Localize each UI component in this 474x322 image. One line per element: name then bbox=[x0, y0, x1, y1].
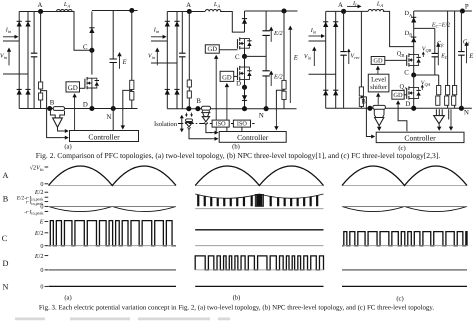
MOSFET Q2 (b) body diode bbox=[245, 67, 250, 80]
rail junction dot (b) bbox=[281, 8, 286, 13]
load divider (c) bbox=[454, 11, 456, 108]
output E arrow (c) bbox=[466, 44, 468, 63]
bridge diode top-left (c) bbox=[325, 11, 327, 108]
E divider resistor lower bbox=[445, 96, 449, 105]
node A bbox=[38, 9, 43, 14]
junction dot sense branch (b) bbox=[186, 106, 191, 111]
flying cap bottom wire bbox=[414, 74, 435, 76]
svg-text:(a): (a) bbox=[64, 144, 71, 151]
svg-text:N: N bbox=[259, 112, 264, 119]
ISO box 1 bbox=[212, 120, 229, 127]
voltage sense isolator triangle (b) bbox=[186, 122, 193, 126]
output capacitor C_d bbox=[460, 11, 462, 52]
wire inductor to node C bbox=[71, 12, 92, 51]
AC input wire upper bbox=[3, 40, 19, 42]
node N (a) bbox=[111, 106, 116, 111]
input divider tap wire bbox=[41, 91, 62, 138]
row A rectified sine (c) bbox=[342, 166, 467, 186]
svg-text:0: 0 bbox=[40, 284, 43, 291]
upper E/2 arrow bbox=[270, 29, 272, 42]
output divider wire (a) bbox=[131, 11, 133, 109]
wire QB source to node C (c) bbox=[413, 65, 415, 75]
AC input wire lower bbox=[3, 73, 28, 75]
sense resistor lower bbox=[39, 93, 43, 100]
rail junction dot bbox=[129, 8, 134, 13]
voltage sense open arrowhead (b) bbox=[187, 127, 190, 130]
wire C to Q2 drain bbox=[244, 56, 246, 67]
wire inductor to FC leg bbox=[383, 11, 414, 46]
bridge diode bottom-right (c) bbox=[333, 90, 338, 95]
amp output to controller bbox=[58, 127, 64, 131]
svg-text:(a): (a) bbox=[64, 295, 71, 302]
row A rectified sine (a) bbox=[49, 166, 177, 186]
input sense divider wire bbox=[40, 12, 42, 109]
svg-text:Controller: Controller bbox=[404, 133, 436, 142]
gate driver GD box Q_B bbox=[371, 57, 385, 65]
bottom rail (c) bbox=[326, 107, 472, 109]
divider tap path 2 (c) bbox=[448, 109, 450, 119]
E sense divider (c) bbox=[447, 11, 449, 108]
svg-text:N: N bbox=[107, 114, 112, 121]
svg-text:Controller: Controller bbox=[88, 132, 120, 141]
level shifter box bbox=[368, 74, 389, 92]
wire inductor to NPC leg bbox=[220, 12, 244, 33]
bridge diode top-right (c) bbox=[335, 11, 337, 108]
divider resistor upper (a) bbox=[130, 80, 134, 89]
svg-text:GD: GD bbox=[208, 46, 218, 53]
sense resistor lower (b) bbox=[187, 91, 191, 98]
voltage sense wire to controller (b) bbox=[189, 130, 212, 139]
svg-text:E: E bbox=[121, 59, 126, 66]
voltage arrow V_in (c) bbox=[313, 49, 315, 66]
svg-text:ISO: ISO bbox=[237, 121, 248, 128]
current sense amp triangle (c) bbox=[375, 118, 384, 126]
current sense open arrowhead (b) bbox=[204, 122, 207, 125]
load resistor lower bbox=[452, 96, 456, 105]
current arrow I_in (c) bbox=[309, 35, 323, 37]
row N waveform (a) bbox=[49, 285, 177, 287]
MOSFET switch (a) body diode bbox=[92, 78, 97, 88]
divider tap to controller bbox=[123, 90, 132, 111]
row A axis (b) bbox=[195, 185, 323, 187]
sense amp triangle (c) bbox=[434, 116, 445, 124]
wire C to MOSFET drain bbox=[91, 50, 93, 74]
ISO2 link wire bbox=[241, 127, 243, 131]
current sense funnel (b) bbox=[201, 112, 210, 114]
circuit (b) NPC PFC — top input rail bbox=[167, 11, 189, 13]
sense resistor lower (c) bbox=[359, 98, 363, 107]
GD drive arrow (a) bbox=[74, 96, 76, 131]
voltage arrow V_in bbox=[8, 50, 10, 65]
MOSFET Q_B (c) bbox=[408, 53, 410, 66]
svg-text:Fig. 2. Comparison of PFC topo: Fig. 2. Comparison of PFC topologies, (a… bbox=[36, 151, 441, 160]
current sense isolator triangle (b) bbox=[202, 117, 209, 122]
current sense amp triangle (a) bbox=[53, 118, 63, 127]
ISO box 2 bbox=[233, 120, 250, 127]
bridge diode bottom-left (b) bbox=[165, 89, 170, 94]
svg-text:0: 0 bbox=[40, 203, 43, 210]
svg-text:E/2: E/2 bbox=[34, 189, 44, 196]
divider resistor upper (b) bbox=[282, 80, 286, 89]
flying cap top wire bbox=[414, 27, 435, 29]
AC input wire upper (c) bbox=[309, 40, 326, 42]
svg-text:E/2: E/2 bbox=[273, 74, 283, 81]
svg-text:Level: Level bbox=[371, 76, 386, 83]
current sense stub right (b) bbox=[208, 111, 210, 113]
bridge diode top-right bbox=[27, 12, 29, 109]
gate wire Q_A bbox=[404, 94, 407, 96]
inductor L_A (b) bbox=[205, 10, 221, 12]
NPC upper diode bbox=[244, 11, 246, 32]
gate driver GD1 box (b) bbox=[205, 45, 219, 53]
inductor L_A (c) bbox=[368, 9, 384, 11]
E_C chain resistor upper bbox=[437, 86, 441, 95]
voltage sense isolator body (b) bbox=[186, 119, 193, 122]
svg-text:E/2: E/2 bbox=[34, 253, 44, 260]
svg-text:B: B bbox=[361, 98, 366, 105]
inductor current arrow I_L bbox=[347, 5, 359, 7]
svg-text:GD: GD bbox=[68, 84, 78, 92]
voltage sense converging arrows (b) bbox=[185, 113, 187, 116]
svg-text:D: D bbox=[83, 101, 88, 108]
svg-text:C: C bbox=[404, 69, 409, 76]
row C waveform (a) bbox=[49, 221, 177, 246]
wire C to cap midpoint bbox=[245, 55, 267, 57]
node P bbox=[460, 8, 465, 13]
svg-text:E/2: E/2 bbox=[273, 30, 283, 37]
row D waveform (a) bbox=[49, 269, 177, 271]
svg-text:A: A bbox=[186, 2, 191, 9]
wire QA source to node D (c) bbox=[413, 98, 415, 108]
bridge diode bottom-right (b) bbox=[174, 89, 179, 94]
MOSFET switch (a) bbox=[86, 77, 88, 89]
row A axis (a) bbox=[49, 185, 177, 187]
isolation boundary double arrow bbox=[181, 117, 183, 124]
svg-text:E: E bbox=[293, 55, 298, 62]
V_rec label bbox=[348, 51, 350, 64]
current arrow I_in bbox=[3, 36, 16, 38]
gate wire Q_B bbox=[385, 59, 407, 61]
svg-text:0: 0 bbox=[40, 181, 43, 188]
sense resistor upper bbox=[39, 82, 43, 89]
svg-text:N: N bbox=[3, 283, 9, 292]
filter capacitor bbox=[33, 12, 35, 54]
bridge diode top-left bbox=[18, 12, 20, 109]
svg-text:D: D bbox=[405, 101, 410, 108]
MOSFET Q_A (c) bbox=[408, 86, 410, 99]
output caps branch (b) bbox=[265, 11, 267, 31]
bridge diode bottom-left bbox=[17, 89, 22, 94]
MOSFET Q_B (c) body diode bbox=[414, 55, 419, 66]
divider resistor lower (b) bbox=[282, 91, 286, 99]
node N (b) bbox=[264, 106, 269, 111]
row A rectified sine (b) bbox=[195, 166, 323, 186]
svg-text:GD: GD bbox=[393, 92, 403, 99]
level shifter to GD arrow bbox=[377, 68, 379, 74]
svg-text:0: 0 bbox=[40, 267, 43, 274]
inductor L_A bbox=[57, 10, 73, 12]
node C (c) bbox=[411, 72, 416, 77]
svg-text:(c): (c) bbox=[396, 296, 403, 303]
AC input wire lower (c) bbox=[309, 73, 336, 75]
circuit (c) FC PFC — top input rail bbox=[326, 10, 344, 12]
svg-text:D: D bbox=[236, 80, 241, 87]
output divider wire (b) bbox=[283, 11, 285, 109]
svg-text:P: P bbox=[465, 3, 469, 10]
current sense funnel right (a) bbox=[60, 111, 65, 118]
row B waveform (a) bbox=[49, 206, 177, 211]
E_C chain resistor lower bbox=[436, 96, 440, 105]
E_C arrow bbox=[437, 45, 439, 65]
sense amp input stubs (c) bbox=[435, 109, 437, 115]
svg-text:C: C bbox=[2, 234, 8, 243]
shunt resistor (c) bbox=[373, 105, 386, 109]
svg-text:C: C bbox=[83, 44, 88, 51]
node C (b) bbox=[242, 54, 247, 59]
E divider resistor upper bbox=[446, 86, 450, 95]
leg to rail junction (b) bbox=[242, 106, 247, 111]
svg-text:shifter: shifter bbox=[370, 84, 388, 91]
NPC lower diode bbox=[244, 87, 246, 108]
controller box (c) bbox=[376, 132, 464, 142]
gate wire Q2 bbox=[234, 75, 238, 77]
bridge diode bottom-right bbox=[25, 89, 30, 94]
MOSFET Q1 (b) body diode bbox=[245, 39, 250, 49]
output voltage arrow E (b) bbox=[289, 28, 291, 103]
svg-text:GD: GD bbox=[222, 74, 232, 81]
controller box (a) bbox=[70, 131, 139, 142]
row C waveform (c) bbox=[342, 232, 467, 246]
input sense divider wire (b) bbox=[188, 12, 190, 109]
current sense stub left (c) bbox=[373, 109, 375, 115]
isolation dash-dot line bbox=[178, 123, 255, 125]
wire Q2 source to D bbox=[244, 80, 246, 88]
filter capacitor (b) bbox=[181, 12, 183, 54]
svg-text:-r·Iin,peak: -r·Iin,peak bbox=[24, 209, 44, 215]
controller box (b) bbox=[219, 132, 286, 143]
top output rail (b) bbox=[245, 10, 298, 12]
svg-text:A: A bbox=[38, 2, 43, 9]
wire A to inductor (c) bbox=[344, 10, 368, 12]
gate driver GD box Q_A bbox=[392, 90, 404, 99]
shunt resistor (b) bbox=[202, 106, 211, 110]
diode DA bbox=[413, 11, 415, 28]
circuit (a) two-level PFC — top input rail bbox=[19, 11, 74, 13]
wire DB to QB drain bbox=[413, 47, 415, 55]
row C waveform (b) bbox=[195, 229, 323, 231]
boost diode bbox=[91, 12, 93, 51]
top output rail (c) bbox=[414, 10, 472, 12]
current sense stub right (c) bbox=[383, 109, 385, 115]
node B bbox=[47, 106, 52, 111]
row D waveform (b) bbox=[195, 256, 323, 270]
svg-text:A: A bbox=[3, 171, 9, 180]
GD_A drive path bbox=[397, 103, 399, 105]
current arrow I_in (b) bbox=[151, 36, 164, 38]
svg-text:E: E bbox=[468, 53, 473, 60]
row N waveform (b) bbox=[195, 285, 323, 287]
lower E/2 capacitor bbox=[262, 71, 269, 76]
bridge diode bottom-left (c) bbox=[323, 90, 328, 95]
svg-text:(b): (b) bbox=[233, 295, 241, 302]
wire C to QA drain bbox=[413, 75, 415, 88]
svg-text:E: E bbox=[39, 219, 44, 226]
svg-text:(b): (b) bbox=[232, 144, 240, 151]
svg-text:B: B bbox=[196, 98, 201, 105]
row B waveform (b) bbox=[195, 194, 323, 198]
diode DB bbox=[413, 28, 415, 46]
divider tap to controller (b) bbox=[276, 90, 284, 111]
svg-text:B: B bbox=[3, 194, 9, 203]
gate driver GD2 box (b) bbox=[220, 71, 234, 81]
AC input wire upper (b) bbox=[151, 40, 167, 42]
svg-text:D: D bbox=[3, 259, 9, 268]
row A axis (c) bbox=[342, 185, 467, 187]
input sense divider wire (c) bbox=[360, 11, 362, 108]
row B waveform (c) bbox=[342, 206, 467, 211]
cropped next text line bbox=[15, 317, 230, 320]
svg-text:GD: GD bbox=[373, 57, 383, 64]
amp output arrow down (c) bbox=[438, 124, 440, 129]
output capacitor (a) bbox=[112, 11, 114, 60]
upper E/2 capacitor bbox=[262, 31, 269, 36]
gate wire Q1 bbox=[219, 49, 237, 51]
svg-text:IL: IL bbox=[352, 1, 358, 8]
svg-text:E/2: E/2 bbox=[34, 230, 44, 237]
node B (c) bbox=[367, 106, 372, 111]
rectified bus capacitor (c) bbox=[343, 11, 345, 51]
node C bbox=[89, 48, 94, 53]
shunt resistor (a) bbox=[53, 107, 64, 111]
svg-text:0: 0 bbox=[40, 243, 43, 250]
MOSFET Q1 (b) bbox=[239, 37, 241, 49]
wire Q1 source to node C (b) bbox=[244, 48, 246, 56]
wire A to inductor bbox=[189, 11, 205, 13]
node B (b) bbox=[195, 106, 200, 111]
svg-text:C: C bbox=[235, 54, 240, 61]
input divider tap wire (c) bbox=[361, 97, 370, 137]
svg-text:N: N bbox=[464, 110, 469, 117]
amp output arrow (c) bbox=[378, 126, 380, 129]
lower E/2 arrow bbox=[270, 73, 272, 86]
current sense stub left (b) bbox=[201, 111, 203, 113]
node D (a) bbox=[89, 106, 94, 111]
node D (b) bbox=[242, 85, 247, 90]
sense resistor upper (c) bbox=[359, 87, 363, 96]
AC input wire lower (b) bbox=[151, 62, 177, 64]
bottom rail (a) bbox=[19, 108, 137, 110]
svg-text:ISO: ISO bbox=[216, 121, 227, 128]
node A (c) bbox=[341, 9, 346, 14]
GD2 drive arrow (b) bbox=[226, 85, 228, 120]
svg-text:A: A bbox=[338, 2, 343, 9]
bridge diode top-right (b) bbox=[176, 12, 178, 109]
gate driver GD box (a) bbox=[66, 82, 80, 92]
node A (b) bbox=[187, 9, 192, 14]
bottom rail (b) bbox=[167, 108, 296, 110]
gate wire bbox=[80, 87, 85, 89]
current sense funnel left (a) bbox=[50, 111, 55, 118]
row N waveform (c) bbox=[342, 285, 467, 287]
level shifter input arrow bbox=[377, 95, 379, 105]
voltage arrow V_in (b) bbox=[156, 50, 158, 65]
row D waveform (c) bbox=[342, 269, 467, 271]
svg-text:Fig. 3. Each electric potentia: Fig. 3. Each electric potential variatio… bbox=[39, 305, 434, 312]
MOSFET Q2 (b) bbox=[239, 66, 241, 81]
GD1 drive arrow (b) bbox=[215, 57, 217, 120]
N wire to controller bbox=[112, 109, 114, 131]
svg-text:Isolation: Isolation bbox=[154, 121, 178, 128]
sense amp trapezoid (c) bbox=[374, 115, 384, 118]
svg-text:Controller: Controller bbox=[237, 133, 269, 142]
wire MOSFET source to node D bbox=[91, 88, 93, 109]
sense resistor upper (b) bbox=[187, 80, 191, 87]
current sense wire to controller (b) bbox=[206, 125, 212, 133]
node D (c) bbox=[411, 106, 416, 111]
load resistor upper bbox=[453, 86, 457, 95]
E_C sense chain bbox=[438, 75, 440, 86]
output voltage arrow E bbox=[119, 55, 121, 69]
bridge diode top-left (b) bbox=[166, 12, 168, 109]
node N (c) bbox=[459, 106, 464, 111]
divider resistor lower (a) bbox=[130, 92, 134, 101]
flying capacitor C_fc bbox=[434, 28, 436, 53]
MOSFET Q_A (c) body diode bbox=[414, 88, 419, 99]
svg-text:B: B bbox=[50, 100, 55, 107]
top output rail (a) bbox=[92, 10, 138, 12]
